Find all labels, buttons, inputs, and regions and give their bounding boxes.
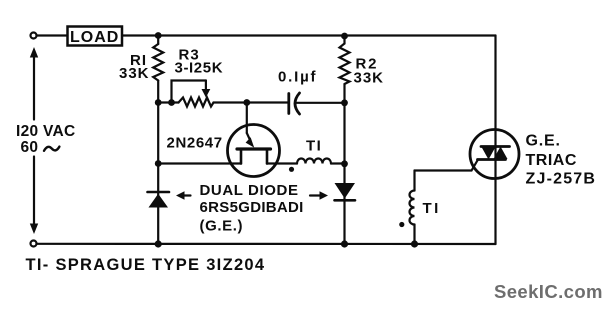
AC source double-arrow <box>30 47 38 234</box>
wire T1 secondary bottom lead <box>413 225 415 245</box>
capacitor C1 0.1uf <box>289 93 345 114</box>
node: pot row / left column <box>155 99 162 106</box>
node: left diode / bottom rail <box>155 240 162 247</box>
inductor T1 secondary winding <box>410 191 415 225</box>
arrow to left diode <box>176 191 191 199</box>
node: T1 primary phasing dot <box>289 167 294 172</box>
svg-text:60: 60 <box>21 139 39 156</box>
wire top rail: terminal to LOAD <box>37 34 68 36</box>
svg-text:33K: 33K <box>354 70 385 87</box>
label 60Hz tilde <box>44 147 59 151</box>
UJT emitter lead with arrow <box>246 103 255 148</box>
resistor R1 <box>153 36 163 103</box>
wire B2 row (UJT to T1 primary) <box>267 162 297 164</box>
arrow to right diode <box>310 191 328 199</box>
wire R2 column (R2 bottom to bottom rail) <box>343 84 345 244</box>
transistor Q1 2N2647 (UJT) circle <box>228 125 280 177</box>
diode CR1b (right, cathode down) <box>335 183 356 200</box>
wire left column (R1 bottom to bottom rail) <box>157 103 159 245</box>
node: capacitor / R2 column <box>341 99 348 106</box>
svg-text:TRIAC: TRIAC <box>526 152 577 169</box>
svg-text:LOAD: LOAD <box>70 29 119 46</box>
LOAD box <box>68 27 123 46</box>
wire bottom rail <box>37 243 496 245</box>
svg-text:TI: TI <box>423 200 441 217</box>
svg-text:DUAL DIODE: DUAL DIODE <box>200 182 299 199</box>
node: T1 secondary / bottom rail <box>411 240 418 247</box>
diode CR1a (left, cathode up) <box>148 192 170 208</box>
svg-text:G.E.: G.E. <box>526 133 561 150</box>
svg-text:33K: 33K <box>119 65 150 82</box>
wire top rail: LOAD to right corner <box>122 34 496 36</box>
svg-text:SeekIC.com: SeekIC.com <box>494 281 603 302</box>
node: top rail / R2 junction <box>341 33 348 40</box>
node: top rail / R1 junction <box>155 32 162 39</box>
node: B1 wire / left column <box>155 160 162 167</box>
node: B2 / R2 column junction <box>341 160 348 167</box>
wire triac gate <box>415 160 479 171</box>
inductor T1 primary winding <box>297 159 331 164</box>
svg-text:2N2647: 2N2647 <box>167 135 223 152</box>
node: right diode / bottom rail <box>341 240 348 247</box>
svg-text:(G.E.): (G.E.) <box>200 218 244 235</box>
svg-text:TI- SPRAGUE TYPE 3IZ204: TI- SPRAGUE TYPE 3IZ204 <box>26 256 266 274</box>
svg-text:ZJ-257B: ZJ-257B <box>526 171 597 188</box>
svg-text:3-I25K: 3-I25K <box>175 60 224 77</box>
resistor R2 <box>340 36 350 85</box>
terminal top-left <box>31 33 37 39</box>
node: UJT emitter junction <box>243 99 250 106</box>
svg-text:I20 VAC: I20 VAC <box>16 123 76 140</box>
svg-text:0.Iµf: 0.Iµf <box>278 69 317 86</box>
terminal bottom-left <box>31 241 37 247</box>
wire pot row to capacitor <box>214 101 289 103</box>
wire B1 row (left column to UJT) <box>158 162 241 164</box>
wire T1 secondary top lead <box>413 171 415 191</box>
UJT base bar and legs <box>237 149 271 164</box>
svg-text:TI: TI <box>306 138 322 155</box>
wire right column (top corner to bottom rail, through triac) <box>494 36 496 245</box>
svg-text:6RS5GDIBADI: 6RS5GDIBADI <box>200 199 304 216</box>
triac circle <box>470 130 519 179</box>
potentiometer R3 (rheostat) <box>158 81 213 107</box>
node: T1 secondary phasing dot <box>399 222 404 227</box>
triac triangles and bars <box>478 147 510 160</box>
wire T1 primary to R2 column <box>331 162 345 164</box>
